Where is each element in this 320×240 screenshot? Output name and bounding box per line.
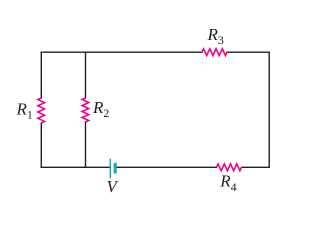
resistor R4 xyxy=(217,164,242,171)
resistor R3 xyxy=(202,49,227,56)
wire left vertical upper xyxy=(40,52,42,98)
wire middle branch lower xyxy=(85,122,87,167)
battery V short plate xyxy=(114,163,117,174)
wire middle branch upper xyxy=(85,52,87,98)
wire top-right segment xyxy=(227,51,269,53)
wire left vertical lower xyxy=(40,123,42,167)
wire top-left segment xyxy=(41,51,202,53)
wire bottom-left segment xyxy=(41,166,109,168)
resistor R2 xyxy=(82,98,89,122)
wire bottom-right segment xyxy=(242,166,270,168)
resistor R1 xyxy=(38,98,45,123)
wire bottom-middle segment xyxy=(117,166,217,168)
battery V long plate xyxy=(109,159,111,179)
wire right vertical xyxy=(268,52,270,167)
